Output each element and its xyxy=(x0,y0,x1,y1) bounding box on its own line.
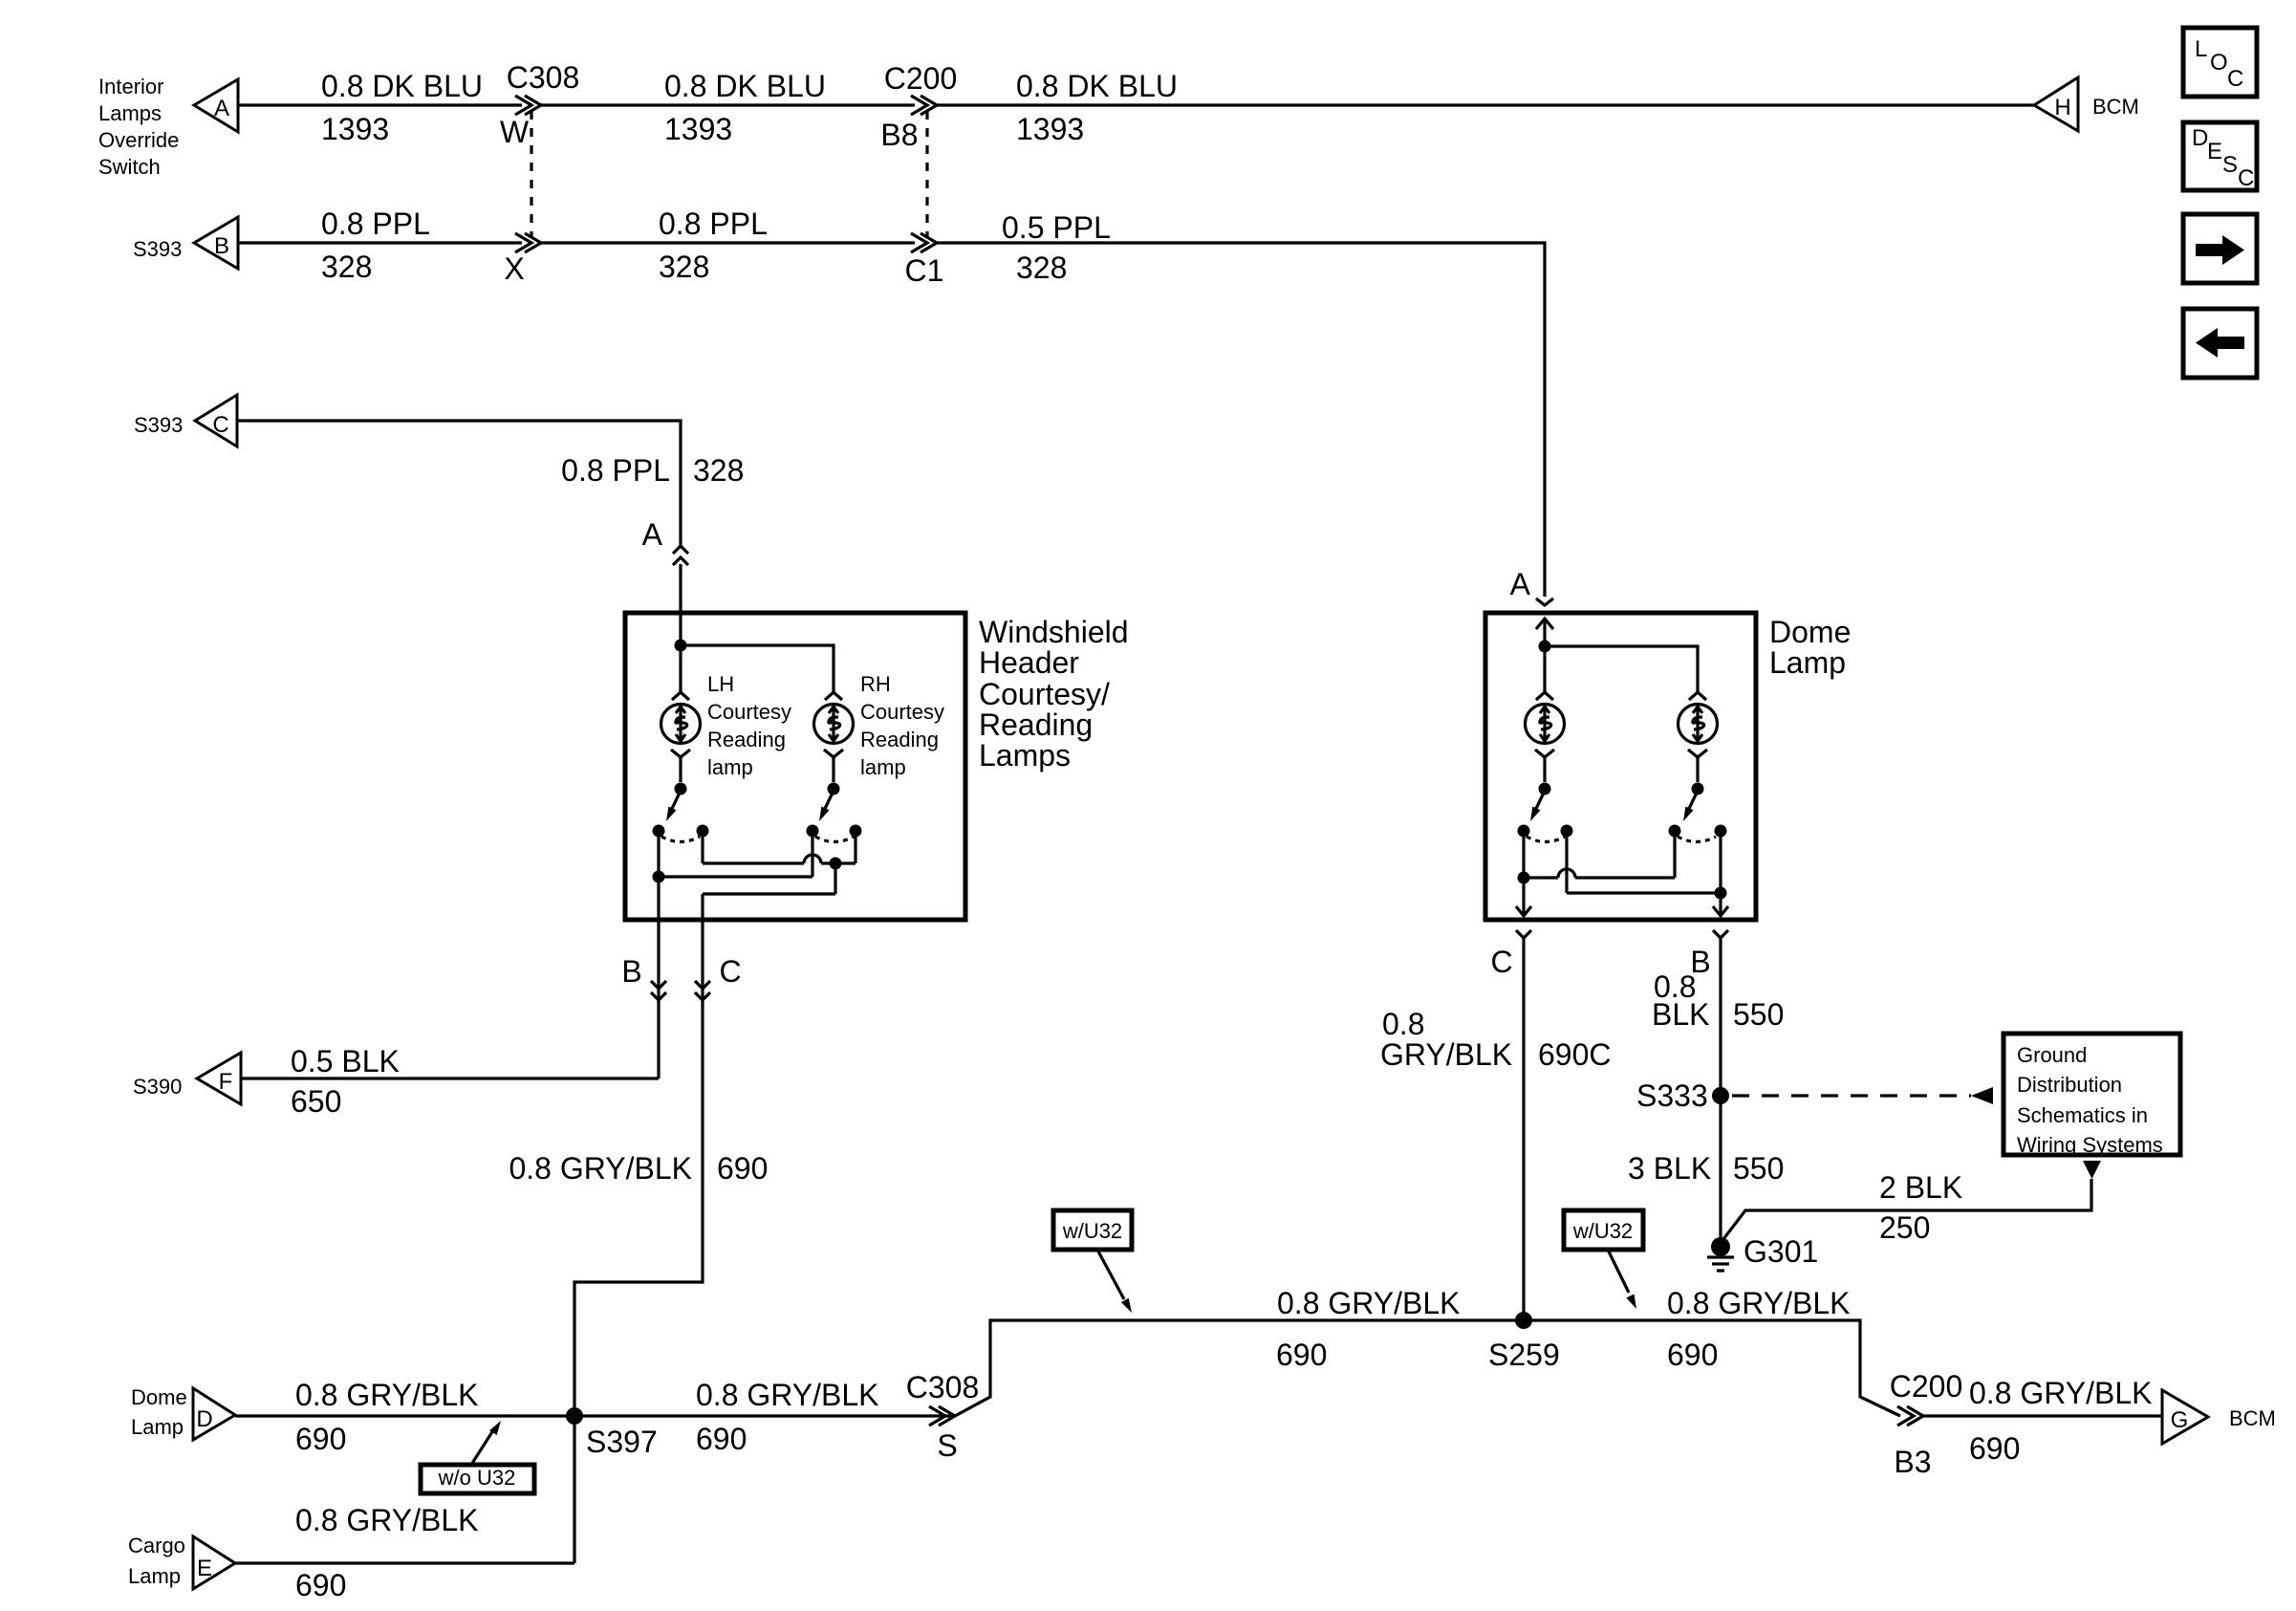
svg-text:650: 650 xyxy=(291,1084,341,1119)
svg-text:Courtesy/: Courtesy/ xyxy=(979,677,1110,711)
svg-text:690: 690 xyxy=(696,1422,747,1456)
svg-text:Lamp: Lamp xyxy=(131,1415,184,1439)
svg-text:S393: S393 xyxy=(134,413,183,437)
svg-text:LH: LH xyxy=(707,672,734,696)
svg-text:RH: RH xyxy=(860,672,891,696)
svg-text:C200: C200 xyxy=(884,61,958,96)
svg-text:C200: C200 xyxy=(1890,1369,1963,1404)
svg-text:F: F xyxy=(219,1069,233,1095)
svg-text:690: 690 xyxy=(295,1422,346,1456)
svg-text:Reading: Reading xyxy=(979,708,1093,742)
svg-text:690: 690 xyxy=(1276,1338,1327,1372)
svg-text:0.8 GRY/BLK: 0.8 GRY/BLK xyxy=(295,1378,479,1412)
svg-text:250: 250 xyxy=(1879,1210,1930,1245)
svg-text:Interior: Interior xyxy=(98,75,163,98)
svg-text:0.5 PPL: 0.5 PPL xyxy=(1002,210,1111,245)
svg-text:B: B xyxy=(621,954,641,989)
svg-text:Courtesy: Courtesy xyxy=(707,700,791,724)
svg-text:0.8 DK BLU: 0.8 DK BLU xyxy=(321,69,483,103)
svg-text:C1: C1 xyxy=(905,253,944,288)
svg-text:L: L xyxy=(2195,36,2207,62)
svg-text:S397: S397 xyxy=(586,1425,658,1459)
svg-text:550: 550 xyxy=(1733,997,1784,1032)
svg-text:G: G xyxy=(2171,1407,2189,1433)
svg-text:328: 328 xyxy=(1016,250,1067,285)
svg-text:C: C xyxy=(1490,945,1512,979)
svg-text:S390: S390 xyxy=(133,1075,182,1099)
svg-text:Lamps: Lamps xyxy=(98,101,162,125)
svg-text:Ground: Ground xyxy=(2017,1043,2087,1067)
svg-text:D: D xyxy=(196,1406,212,1432)
svg-text:0.8 DK BLU: 0.8 DK BLU xyxy=(664,69,826,103)
svg-text:w/o U32: w/o U32 xyxy=(438,1466,516,1490)
svg-text:328: 328 xyxy=(659,250,709,284)
svg-text:S393: S393 xyxy=(133,237,182,261)
svg-text:690: 690 xyxy=(1969,1431,2020,1466)
svg-text:D: D xyxy=(2192,125,2208,151)
svg-text:A: A xyxy=(214,96,229,121)
svg-text:E: E xyxy=(197,1556,212,1581)
svg-text:O: O xyxy=(2210,50,2228,76)
svg-text:A: A xyxy=(1510,567,1531,601)
svg-text:B8: B8 xyxy=(880,118,918,152)
svg-text:lamp: lamp xyxy=(860,755,906,779)
svg-text:0.8 PPL: 0.8 PPL xyxy=(561,453,670,488)
svg-text:690: 690 xyxy=(1667,1338,1718,1372)
svg-text:Lamps: Lamps xyxy=(979,738,1071,773)
svg-text:S333: S333 xyxy=(1636,1078,1708,1113)
svg-text:S: S xyxy=(937,1428,957,1463)
svg-text:Dome: Dome xyxy=(131,1385,187,1409)
svg-text:Switch: Switch xyxy=(98,155,161,179)
svg-text:Lamp: Lamp xyxy=(1769,645,1846,680)
svg-text:lamp: lamp xyxy=(707,755,753,779)
svg-text:S259: S259 xyxy=(1488,1338,1560,1372)
svg-text:w/U32: w/U32 xyxy=(1572,1219,1633,1243)
svg-text:C: C xyxy=(212,412,228,438)
svg-text:H: H xyxy=(2054,95,2070,120)
svg-text:0.8 GRY/BLK: 0.8 GRY/BLK xyxy=(696,1378,879,1412)
svg-text:0.8 GRY/BLK: 0.8 GRY/BLK xyxy=(1969,1376,2153,1410)
svg-text:C: C xyxy=(719,954,741,989)
svg-text:0.8: 0.8 xyxy=(1382,1007,1424,1041)
svg-text:3 BLK: 3 BLK xyxy=(1628,1151,1711,1186)
svg-text:BLK: BLK xyxy=(1652,997,1709,1032)
svg-text:Schematics in: Schematics in xyxy=(2017,1103,2148,1127)
svg-text:690C: 690C xyxy=(1538,1037,1612,1072)
svg-text:Reading: Reading xyxy=(707,728,786,751)
svg-text:690: 690 xyxy=(295,1568,346,1602)
svg-text:Cargo: Cargo xyxy=(128,1534,185,1557)
svg-text:BCM: BCM xyxy=(2092,95,2139,119)
svg-text:Windshield: Windshield xyxy=(979,615,1129,649)
svg-text:C: C xyxy=(2227,66,2243,92)
svg-text:0.8 GRY/BLK: 0.8 GRY/BLK xyxy=(509,1151,692,1186)
svg-text:1393: 1393 xyxy=(1016,112,1084,146)
svg-text:Courtesy: Courtesy xyxy=(860,700,944,724)
svg-text:X: X xyxy=(504,251,524,286)
svg-text:1393: 1393 xyxy=(321,112,389,146)
svg-text:GRY/BLK: GRY/BLK xyxy=(1380,1037,1512,1072)
svg-text:328: 328 xyxy=(321,250,372,284)
svg-text:Reading: Reading xyxy=(860,728,939,751)
svg-text:Wiring Systems: Wiring Systems xyxy=(2017,1133,2163,1157)
svg-text:Lamp: Lamp xyxy=(128,1564,181,1588)
svg-text:0.8 GRY/BLK: 0.8 GRY/BLK xyxy=(295,1503,479,1537)
svg-text:w/U32: w/U32 xyxy=(1062,1219,1122,1243)
svg-text:0.8 GRY/BLK: 0.8 GRY/BLK xyxy=(1667,1286,1851,1320)
svg-text:BCM: BCM xyxy=(2229,1406,2276,1430)
svg-text:2 BLK: 2 BLK xyxy=(1879,1170,1962,1205)
svg-text:Distribution: Distribution xyxy=(2017,1073,2122,1097)
svg-text:0.8 GRY/BLK: 0.8 GRY/BLK xyxy=(1277,1286,1461,1320)
svg-text:G301: G301 xyxy=(1744,1234,1818,1269)
svg-text:0.5 BLK: 0.5 BLK xyxy=(291,1044,400,1078)
svg-text:W: W xyxy=(500,115,530,149)
svg-text:690: 690 xyxy=(717,1151,768,1186)
svg-text:0.8 DK BLU: 0.8 DK BLU xyxy=(1016,69,1178,103)
svg-text:Header: Header xyxy=(979,645,1079,680)
svg-text:C308: C308 xyxy=(507,60,580,95)
svg-text:C: C xyxy=(2238,165,2254,191)
svg-text:Override: Override xyxy=(98,128,179,152)
svg-text:B3: B3 xyxy=(1894,1445,1931,1479)
svg-text:0.8 PPL: 0.8 PPL xyxy=(321,207,430,241)
svg-text:B: B xyxy=(214,233,229,259)
svg-text:550: 550 xyxy=(1733,1151,1784,1186)
svg-text:S: S xyxy=(2222,152,2238,178)
svg-text:A: A xyxy=(642,517,663,552)
svg-text:C308: C308 xyxy=(906,1370,980,1404)
svg-text:1393: 1393 xyxy=(664,112,732,146)
svg-text:E: E xyxy=(2207,139,2222,164)
svg-text:Dome: Dome xyxy=(1769,615,1851,649)
svg-text:0.8 PPL: 0.8 PPL xyxy=(659,207,768,241)
svg-text:328: 328 xyxy=(693,453,744,488)
